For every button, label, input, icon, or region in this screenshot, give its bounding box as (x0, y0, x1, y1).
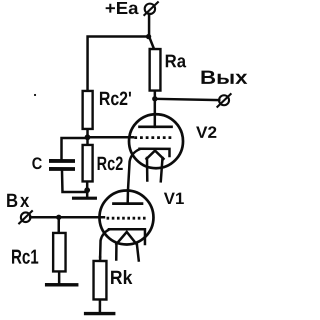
svg-text:+Ea: +Ea (105, 0, 139, 18)
svg-text:Rc2': Rc2' (99, 89, 132, 110)
svg-text:V2: V2 (196, 124, 217, 142)
svg-text:Rc2: Rc2 (97, 154, 124, 175)
svg-text:Ra: Ra (165, 50, 187, 71)
svg-text:Вх: Вх (6, 191, 32, 212)
svg-text:V1: V1 (164, 190, 185, 208)
svg-text:Вых: Вых (200, 68, 248, 89)
svg-text:Rk: Rk (110, 268, 133, 289)
svg-text:Rc1: Rc1 (11, 247, 39, 269)
svg-text:C: C (32, 154, 43, 173)
